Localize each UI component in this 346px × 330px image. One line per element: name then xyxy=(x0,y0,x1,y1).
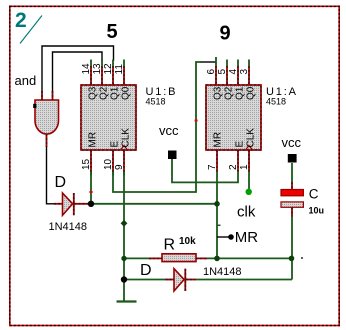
AND output stub xyxy=(46,134,48,147)
U1:A inside pin names xyxy=(213,86,257,147)
sheet slash xyxy=(20,16,42,44)
dashed texture overlay on IC borders xyxy=(81,85,136,150)
wire vcc2 stub xyxy=(291,163,293,182)
junction diamond on clk net xyxy=(121,220,128,227)
pin 4 stub xyxy=(237,66,239,85)
svg-text:D: D xyxy=(55,174,67,191)
svg-text:Q3: Q3 xyxy=(213,86,224,100)
U1:A pin numbers xyxy=(206,69,250,171)
svg-text:Q1: Q1 xyxy=(110,86,121,100)
AND gate U2 xyxy=(33,91,58,147)
pin 1 stub xyxy=(248,150,250,172)
junction dot (217,203.8) xyxy=(214,201,220,207)
gate mark xyxy=(33,104,36,108)
svg-text:11: 11 xyxy=(114,64,125,75)
svg-text:Q2: Q2 xyxy=(99,86,110,100)
dashed texture overlay on pins and stubs xyxy=(42,66,292,291)
pin 11 stub xyxy=(123,66,125,85)
wire resistor rail y=258.4 xyxy=(124,257,151,259)
svg-text:MR: MR xyxy=(235,229,258,246)
svg-text:10u: 10u xyxy=(309,206,325,216)
pin 14 stub xyxy=(90,66,92,85)
svg-text:Q0: Q0 xyxy=(246,86,257,100)
svg-text:5: 5 xyxy=(107,21,118,43)
MR node branch (black) xyxy=(217,236,229,238)
svg-text:R: R xyxy=(164,237,176,254)
svg-text:Q3: Q3 xyxy=(88,86,99,100)
tick on pin7 wire xyxy=(217,224,221,226)
svg-text:4518: 4518 xyxy=(266,97,286,107)
svg-text:14: 14 xyxy=(81,63,92,75)
pin 9 stub xyxy=(123,150,125,172)
svg-text:Q0: Q0 xyxy=(121,86,132,100)
stray speck xyxy=(301,257,303,259)
wire U1:A pin1 to clk terminal xyxy=(248,171,250,191)
pin 2 stub xyxy=(237,150,239,172)
junction dot (124,279.5) black xyxy=(121,276,127,282)
wire MR net U1:B pin15 down xyxy=(90,171,92,204)
pin 13 stub xyxy=(101,66,103,85)
svg-text:MR: MR xyxy=(213,132,224,148)
diode D1 xyxy=(54,193,88,215)
svg-text:CLK: CLK xyxy=(121,128,132,148)
svg-text:clk: clk xyxy=(237,204,256,221)
junction dot diode D1 cathode (91,204) black xyxy=(88,201,94,207)
svg-text:Q1: Q1 xyxy=(235,86,246,100)
diode D2 xyxy=(166,269,196,291)
pin 5 stub xyxy=(226,66,228,85)
AND input stubs xyxy=(41,91,43,100)
junction dot (124,258.4) xyxy=(121,256,126,261)
junction dot (217,258.4) xyxy=(214,256,220,262)
wire AND output to diode D1 (black) xyxy=(47,146,55,204)
red segment mark on pin15 wire xyxy=(89,191,92,193)
vcc terminal 1 symbol xyxy=(168,151,177,160)
MR node dot xyxy=(228,234,234,240)
wire AND input B (black, from pin 13) xyxy=(53,52,103,92)
wire MR horizontal y=204 xyxy=(91,203,217,205)
U1:B inside pin names xyxy=(88,86,132,147)
wire vcc1 to U1:A pin2 xyxy=(172,159,238,182)
pin 3 stub xyxy=(248,66,250,85)
svg-text:vcc: vcc xyxy=(159,123,179,138)
clk edge mark xyxy=(246,146,252,150)
vcc terminal 2 symbol xyxy=(288,154,297,163)
pin 12 stub xyxy=(112,66,114,85)
svg-text:1N4148: 1N4148 xyxy=(49,221,88,233)
pin 15 stub xyxy=(90,150,92,172)
svg-text:10: 10 xyxy=(103,158,114,170)
clk terminal dot xyxy=(246,189,252,195)
svg-text:12: 12 xyxy=(103,63,114,75)
resistor R xyxy=(149,254,207,262)
svg-text:2: 2 xyxy=(15,9,27,32)
U1:B body xyxy=(81,60,136,176)
red segment mark on pin6 wire xyxy=(195,120,198,122)
svg-text:E: E xyxy=(110,141,121,148)
clk edge mark xyxy=(121,146,127,150)
svg-text:9: 9 xyxy=(220,23,231,45)
svg-text:1N4148: 1N4148 xyxy=(203,266,242,278)
junction dot (291.5,258.4) xyxy=(289,256,295,262)
pin 10 stub xyxy=(112,150,114,172)
svg-text:and: and xyxy=(15,73,37,88)
svg-text:10k: 10k xyxy=(179,236,196,247)
svg-text:13: 13 xyxy=(92,63,103,75)
wire AND input A (black, from pin 12 top rail) xyxy=(42,46,114,92)
ground xyxy=(117,300,137,302)
svg-text:4518: 4518 xyxy=(146,97,166,107)
svg-text:D: D xyxy=(140,262,152,279)
wire pin6 horizontal (black) xyxy=(200,61,216,63)
svg-text:E: E xyxy=(235,141,246,148)
svg-text:C: C xyxy=(309,186,319,201)
pin 7 stub xyxy=(216,150,218,172)
U1:B pin numbers xyxy=(81,63,125,170)
wire pin6 to pin10 (green path) xyxy=(215,57,217,66)
wire diode D2 rail y=279.5 xyxy=(124,279,166,281)
svg-text:MR: MR xyxy=(88,132,99,148)
wire capacitor down + corner xyxy=(291,217,293,280)
U1:A body xyxy=(206,60,261,172)
svg-text:CLK: CLK xyxy=(246,128,257,148)
wire U1:B pin9 down to ground xyxy=(123,171,125,302)
capacitor C xyxy=(281,182,303,217)
svg-text:Q2: Q2 xyxy=(224,86,235,100)
svg-text:vcc: vcc xyxy=(282,135,302,150)
pin 6 stub xyxy=(215,66,217,85)
svg-text:15: 15 xyxy=(81,158,92,170)
wire U1:A pin7 down to resistor line xyxy=(216,171,218,258)
